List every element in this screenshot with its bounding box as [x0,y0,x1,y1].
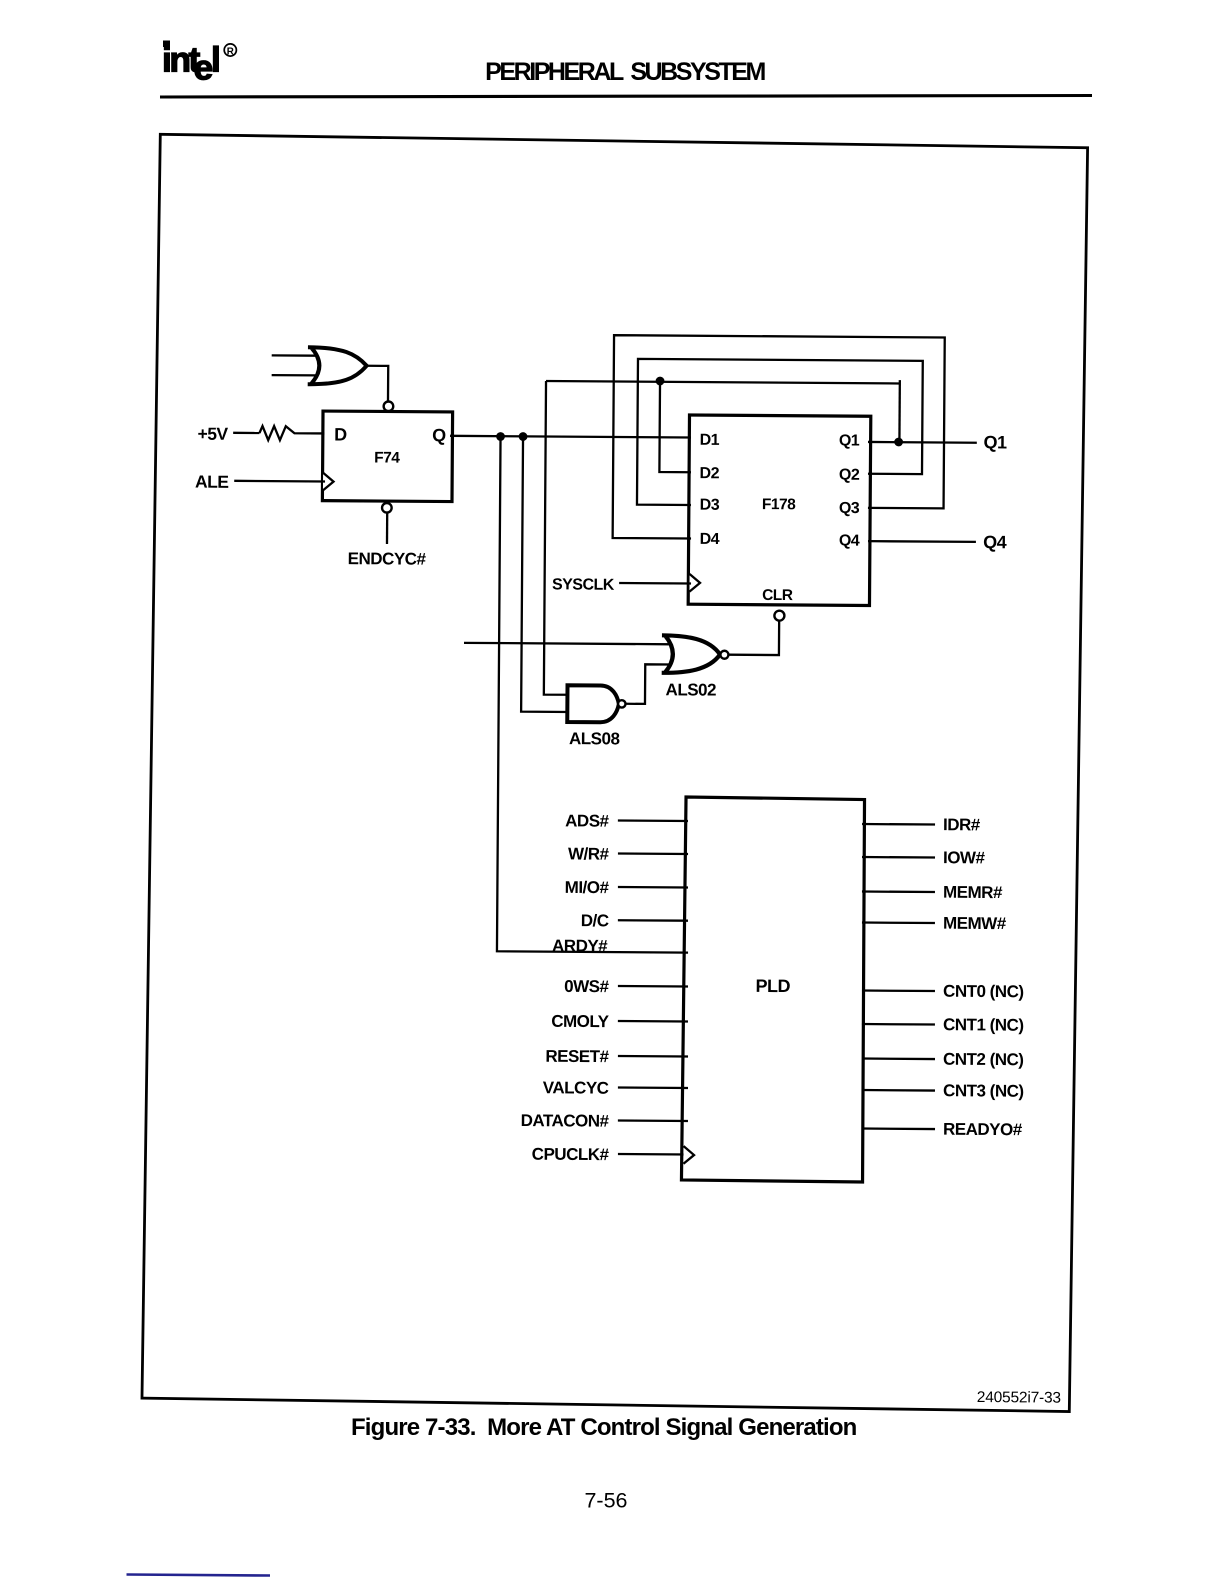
svg-text:D4: D4 [700,531,720,548]
svg-text:R: R [227,46,234,57]
svg-text:MEMR#: MEMR# [943,883,1003,902]
svg-text:Q3: Q3 [839,500,860,517]
svg-text:0WS#: 0WS# [564,977,609,996]
svg-text:Q1: Q1 [983,432,1007,452]
svg-text:IDR#: IDR# [943,815,981,834]
svg-text:D: D [334,425,347,445]
svg-text:READYO#: READYO# [943,1120,1023,1140]
svg-text:DATACON#: DATACON# [521,1111,610,1131]
svg-text:ALS08: ALS08 [569,729,620,748]
svg-text:F178: F178 [762,496,796,513]
svg-text:PLD: PLD [755,976,790,996]
svg-text:CNT0 (NC): CNT0 (NC) [943,982,1024,1002]
svg-text:ENDCYC#: ENDCYC# [348,549,427,569]
svg-text:l: l [211,40,221,80]
svg-text:D2: D2 [700,465,720,482]
svg-text:CNT3 (NC): CNT3 (NC) [943,1081,1024,1101]
svg-text:PERIPHERAL SUBSYSTEM: PERIPHERAL SUBSYSTEM [485,58,765,86]
svg-text:SYSCLK: SYSCLK [552,576,615,593]
svg-text:CNT2 (NC): CNT2 (NC) [943,1050,1024,1070]
svg-text:240552i7-33: 240552i7-33 [977,1389,1061,1407]
svg-text:IOW#: IOW# [943,848,986,867]
svg-text:CLR: CLR [762,587,793,604]
svg-text:CNT1 (NC): CNT1 (NC) [943,1015,1024,1035]
svg-text:ADS#: ADS# [565,811,610,830]
svg-text:Q1: Q1 [839,432,860,449]
svg-text:Figure 7-33. More AT Control: Figure 7-33. More AT Control Signal Gene… [351,1414,857,1441]
svg-text:7-56: 7-56 [584,1489,627,1513]
svg-text:D3: D3 [700,497,720,514]
svg-text:VALCYC: VALCYC [543,1078,609,1097]
svg-text:D/C: D/C [581,911,609,930]
svg-text:MI/O#: MI/O# [565,878,610,897]
svg-text:+5V: +5V [197,424,228,444]
svg-text:CMOLY: CMOLY [551,1012,610,1031]
svg-text:Q: Q [432,425,446,445]
svg-text:W/R#: W/R# [568,844,610,863]
svg-text:ARDY#: ARDY# [552,936,608,955]
svg-text:CPUCLK#: CPUCLK# [532,1145,610,1165]
svg-text:RESET#: RESET# [545,1047,609,1066]
svg-text:F74: F74 [374,450,400,467]
svg-text:ALS02: ALS02 [666,680,717,699]
svg-text:Q4: Q4 [839,533,860,550]
svg-text:D1: D1 [700,432,720,449]
svg-text:Q2: Q2 [839,467,860,484]
svg-text:Q4: Q4 [983,532,1007,552]
svg-text:ALE: ALE [195,472,229,492]
svg-text:MEMW#: MEMW# [943,914,1007,933]
